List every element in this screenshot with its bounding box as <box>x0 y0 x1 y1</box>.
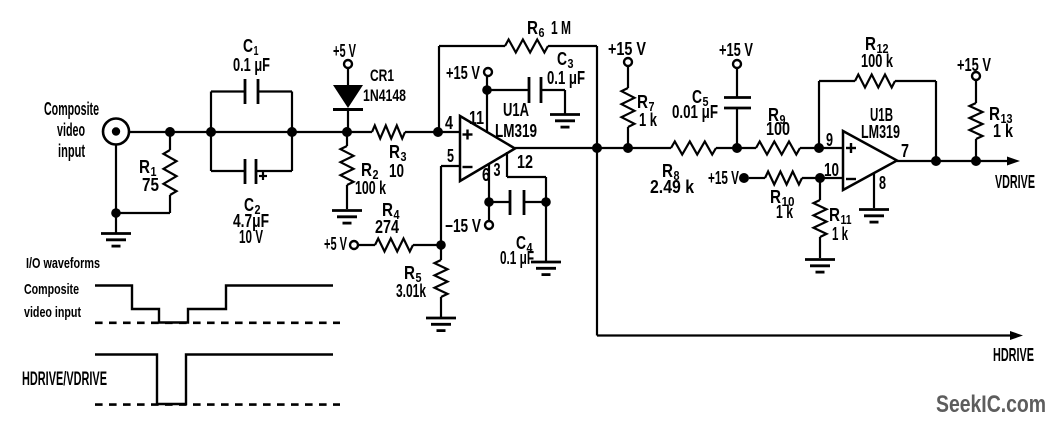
capacitor C2 <box>211 159 292 184</box>
ground (R2) <box>332 211 362 224</box>
baseline (dashed) composite <box>95 321 340 324</box>
svg-text:video input: video input <box>24 304 81 321</box>
svg-text:I/O waveforms: I/O waveforms <box>26 255 100 272</box>
label R7 1k <box>637 92 658 130</box>
wire: VDRIVE output <box>897 157 1020 166</box>
op-amp U1B <box>843 131 897 190</box>
+5V supply (R4) <box>324 234 375 254</box>
resistor R13 <box>970 103 983 161</box>
svg-text:C: C <box>243 36 253 56</box>
svg-text:1 k: 1 k <box>832 224 849 244</box>
wire: ground return <box>116 212 170 214</box>
svg-text:R: R <box>389 142 400 162</box>
svg-text:0.1 μF: 0.1 μF <box>500 248 534 268</box>
node: R4/R5/pin5 junction <box>436 240 446 250</box>
waveform: HDRIVE/VDRIVE <box>95 355 333 405</box>
label R8 2.49k <box>650 161 695 197</box>
node: CR1/R2/R3 junction <box>342 127 352 137</box>
ground (C4) <box>531 202 561 275</box>
svg-text:U1A: U1A <box>503 100 529 120</box>
node: C5/R8/R9 junction <box>732 143 742 153</box>
label R1 75 <box>139 157 159 195</box>
node: +15V / C3 junction <box>482 85 492 95</box>
resistor R2 <box>341 132 354 209</box>
svg-text:75: 75 <box>142 175 159 195</box>
label U1B LM319 <box>861 105 900 142</box>
node: C1C2 right junction <box>287 127 297 137</box>
label U1A LM319 <box>495 100 537 141</box>
svg-text:R: R <box>404 263 415 283</box>
resistor R3 <box>372 126 405 139</box>
label R13 1k <box>989 104 1014 141</box>
svg-text:+15 V: +15 V <box>446 63 480 83</box>
svg-text:100: 100 <box>766 119 790 139</box>
wire: pin 3 <box>507 152 546 202</box>
svg-text:HDRIVE/VDRIVE: HDRIVE/VDRIVE <box>22 369 107 390</box>
svg-text:100 k: 100 k <box>861 51 894 71</box>
label R11 1k <box>829 205 852 244</box>
input connector J1 <box>103 119 129 214</box>
svg-text:+5 V: +5 V <box>333 41 356 61</box>
node: output/R6 junction <box>592 143 602 153</box>
label R5 3.01k <box>396 263 427 301</box>
label C4 0.1uF <box>500 233 534 268</box>
-15V supply (U1A pin 6) <box>445 202 493 236</box>
svg-text:Composite: Composite <box>44 99 99 119</box>
svg-text:100 k: 100 k <box>355 178 387 198</box>
svg-text:SeekIC.com: SeekIC.com <box>936 391 1046 418</box>
node: output/R13 junction <box>971 156 981 166</box>
svg-text:8: 8 <box>879 173 886 193</box>
+15V supply (U1A pin 11) <box>446 63 492 133</box>
svg-text:12: 12 <box>517 152 533 172</box>
label R2 100k <box>355 160 387 198</box>
label: Composite video input <box>44 99 99 161</box>
resistor R4 <box>375 239 441 252</box>
label CR1 1N4148 <box>363 66 406 105</box>
svg-text:CR1: CR1 <box>370 66 394 85</box>
svg-text:+15 V: +15 V <box>708 168 739 188</box>
node: output/R7 junction <box>623 143 633 153</box>
svg-text:7: 7 <box>901 141 909 161</box>
svg-text:Composite: Composite <box>24 281 79 298</box>
resistor R5 <box>435 245 448 317</box>
svg-text:R: R <box>139 157 150 177</box>
label C2 4.7uF 10V <box>233 195 269 247</box>
svg-text:9: 9 <box>826 130 833 150</box>
resistor R11 <box>814 178 827 258</box>
label Composite video input (waveform) <box>24 281 81 321</box>
waveform: composite video input <box>95 286 333 323</box>
svg-text:R: R <box>829 205 840 225</box>
svg-text:1 k: 1 k <box>993 121 1014 141</box>
node: output/R12 junction <box>931 156 941 166</box>
wire: pin 6 <box>488 163 490 202</box>
wire: pin 5 <box>441 166 460 245</box>
ground (input) <box>101 213 131 246</box>
diode CR1 <box>333 85 363 132</box>
svg-text:input: input <box>58 141 85 161</box>
svg-text:274: 274 <box>375 217 399 237</box>
resistor R1 <box>164 132 177 213</box>
ground (U1B pin 8) <box>859 173 889 222</box>
node: pin6/C4 junction <box>484 197 494 207</box>
node: pin4 junction <box>433 127 443 137</box>
node: C4 right junction <box>541 197 551 207</box>
label R9 100 <box>766 105 790 139</box>
node: pin 9 junction <box>814 143 824 153</box>
svg-text:R: R <box>637 92 648 112</box>
resistor R7 <box>622 88 635 148</box>
svg-text:1 k: 1 k <box>639 110 658 130</box>
+15V supply (R7) <box>608 39 646 88</box>
label R4 274 <box>375 200 400 237</box>
svg-text:10: 10 <box>389 161 404 181</box>
baseline (dashed) HDRIVE <box>95 403 340 406</box>
capacitor C1 <box>211 79 292 171</box>
node: pin 10 junction <box>815 173 825 183</box>
+5V supply (CR1) <box>333 41 356 85</box>
+15V supply (R10) <box>708 168 765 188</box>
svg-text:+5 V: +5 V <box>324 234 347 254</box>
node: ground return junction <box>111 208 121 218</box>
+15V supply (C5) <box>719 40 753 97</box>
svg-text:LM319: LM319 <box>861 122 900 142</box>
svg-text:2.49 k: 2.49 k <box>650 177 695 197</box>
ground (C3) <box>550 115 580 128</box>
op-amp U1A <box>460 116 515 181</box>
label R3 10 <box>389 142 407 181</box>
svg-text:1 k: 1 k <box>776 202 794 222</box>
svg-text:0.1 μF: 0.1 μF <box>233 55 270 75</box>
svg-text:VDRIVE: VDRIVE <box>995 172 1035 192</box>
svg-text:3: 3 <box>494 160 501 180</box>
svg-text:1 M: 1 M <box>551 18 571 38</box>
capacitor C4 <box>489 190 546 215</box>
resistor R6 feedback <box>439 40 597 149</box>
svg-text:−15 V: −15 V <box>445 216 481 236</box>
svg-text:5: 5 <box>447 146 454 166</box>
ground (R11) <box>805 260 835 273</box>
svg-text:3.01k: 3.01k <box>396 281 427 301</box>
svg-text:C: C <box>557 49 567 69</box>
node: C1C2 left junction <box>206 127 216 137</box>
resistor R10 <box>765 172 843 185</box>
node: input / R1 junction <box>165 127 175 137</box>
svg-text:0.01 μF: 0.01 μF <box>672 102 718 122</box>
capacitor C3 <box>487 77 565 114</box>
+15V supply (R13) <box>957 55 991 103</box>
svg-text:LM319: LM319 <box>495 121 537 141</box>
resistor R8 <box>671 142 716 155</box>
svg-text:video: video <box>57 120 85 140</box>
svg-text:10 V: 10 V <box>239 227 263 247</box>
label R10 1k <box>770 187 795 222</box>
capacitor C5 <box>724 98 751 149</box>
svg-text:1N4148: 1N4148 <box>363 86 406 105</box>
wire: HDRIVE branch <box>597 148 1023 340</box>
svg-text:HDRIVE: HDRIVE <box>993 345 1034 365</box>
svg-text:+15 V: +15 V <box>608 39 646 59</box>
svg-text:11: 11 <box>469 108 484 128</box>
ground (R5) <box>426 318 456 331</box>
wire: main input line <box>129 131 460 133</box>
label C3 0.1uF <box>547 49 585 88</box>
label R6 1M <box>527 18 571 40</box>
label C5 0.01uF <box>672 87 718 122</box>
svg-text:0.1 μF: 0.1 μF <box>547 68 585 88</box>
svg-text:R: R <box>361 160 372 180</box>
svg-text:4: 4 <box>445 113 453 133</box>
wire: U1A output line <box>515 147 843 149</box>
resistor R12 feedback <box>819 75 936 162</box>
svg-text:+15 V: +15 V <box>719 40 753 60</box>
resistor R9 <box>756 142 800 155</box>
label C1 0.1uF <box>233 36 270 75</box>
label R12 100k <box>861 34 894 71</box>
svg-text:R: R <box>527 18 538 38</box>
svg-text:6: 6 <box>539 25 545 40</box>
